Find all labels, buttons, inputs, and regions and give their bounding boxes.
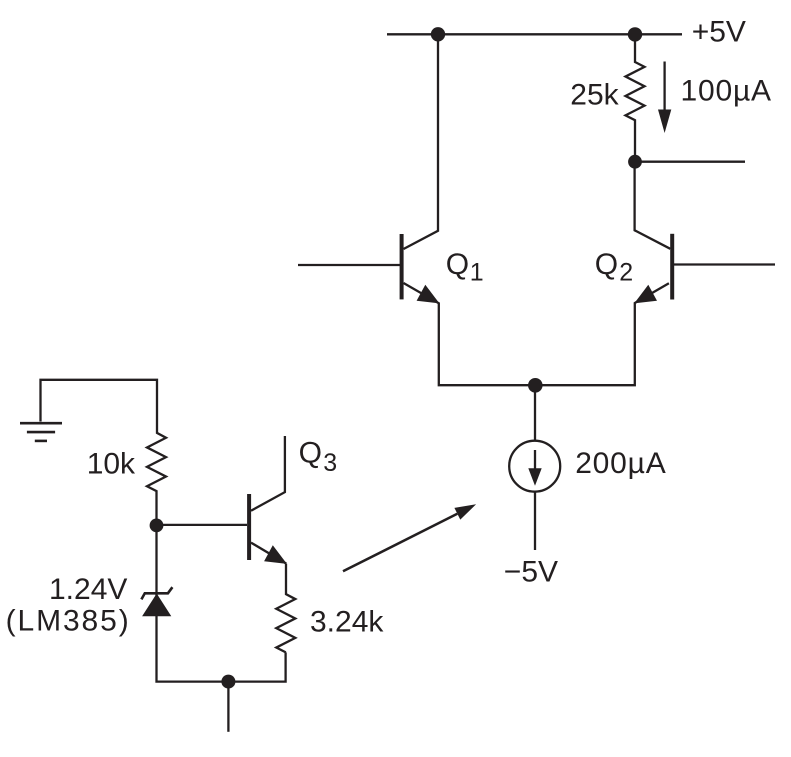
svg-text:+5V: +5V bbox=[692, 15, 746, 48]
svg-text:25k: 25k bbox=[570, 78, 619, 111]
svg-text:(LM385): (LM385) bbox=[6, 604, 131, 637]
svg-text:1: 1 bbox=[470, 259, 484, 287]
svg-text:200µA: 200µA bbox=[575, 447, 666, 480]
svg-text:3.24k: 3.24k bbox=[310, 605, 384, 638]
svg-text:1.24V: 1.24V bbox=[49, 573, 127, 606]
svg-text:100µA: 100µA bbox=[681, 75, 772, 108]
svg-text:10k: 10k bbox=[87, 447, 136, 480]
svg-text:2: 2 bbox=[619, 259, 633, 287]
svg-text:Q: Q bbox=[446, 248, 469, 281]
svg-text:Q: Q bbox=[595, 248, 618, 281]
svg-text:3: 3 bbox=[323, 449, 337, 477]
svg-text:−5V: −5V bbox=[504, 555, 558, 588]
svg-text:Q: Q bbox=[299, 436, 322, 469]
